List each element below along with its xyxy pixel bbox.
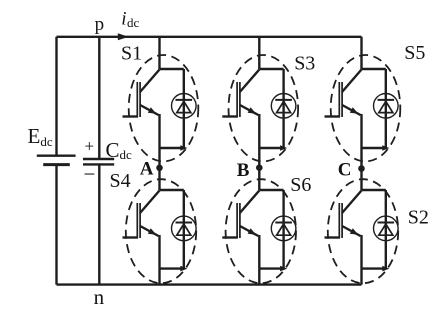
label E_dc bbox=[28, 124, 53, 149]
wire: phase leg A stem to negative rail bbox=[158, 269, 160, 285]
wire: S4 freewheel diode branch vertical bbox=[183, 190, 185, 269]
wire: DC source branch vertical bbox=[55, 37, 57, 285]
svg-text:C: C bbox=[338, 160, 352, 181]
svg-text:p: p bbox=[95, 14, 105, 35]
wire: S3 emitter-to-diode bottom horizontal with arrowhead bbox=[259, 145, 287, 151]
transistor S1 (IGBT symbol) bbox=[123, 70, 160, 118]
label - (capacitor polarity) bbox=[84, 162, 96, 186]
svg-text:S4: S4 bbox=[110, 170, 131, 192]
label node B (phase output) bbox=[237, 160, 250, 181]
diode D1 (freewheeling, in circle) bbox=[172, 94, 197, 119]
wire: S6 emitter vertical bbox=[258, 235, 260, 269]
label S5 (switch designator) bbox=[404, 42, 425, 64]
wire: S5 emitter vertical bbox=[360, 114, 362, 148]
wire: S4 emitter vertical bbox=[158, 235, 160, 269]
wire: S4 collector top horizontal bbox=[160, 189, 184, 191]
arrow: i_dc current direction on positive rail bbox=[118, 33, 129, 40]
wire: S2 freewheel diode branch vertical bbox=[385, 190, 387, 269]
wire: phase leg A stem from positive rail bbox=[158, 37, 160, 69]
svg-text:i: i bbox=[121, 8, 126, 29]
node C (junction dot) bbox=[358, 165, 365, 172]
wire: S6 freewheel diode branch vertical bbox=[282, 190, 284, 269]
wire: positive DC rail (p) bbox=[57, 36, 362, 38]
wire: S3 emitter vertical bbox=[258, 114, 260, 148]
module outline: dashed ellipse around S4 bbox=[126, 179, 196, 283]
diode D3 (freewheeling, in circle) bbox=[271, 94, 296, 119]
node A (junction dot) bbox=[156, 165, 163, 172]
wire: S2 emitter vertical bbox=[360, 235, 362, 269]
diode D5 (freewheeling, in circle) bbox=[374, 94, 399, 119]
svg-text:S2: S2 bbox=[408, 207, 429, 229]
module outline: dashed ellipse around S5 bbox=[331, 55, 401, 161]
transistor S6 (IGBT symbol) bbox=[222, 191, 259, 239]
capacitor C_dc (plates) bbox=[83, 159, 114, 164]
transistor S5 (IGBT symbol) bbox=[325, 70, 362, 118]
module outline: dashed ellipse around S2 bbox=[328, 179, 398, 283]
node p (positive terminal label) bbox=[95, 14, 105, 35]
wire: phase leg B stem from positive rail bbox=[258, 37, 260, 69]
svg-text:dc: dc bbox=[127, 15, 140, 30]
svg-text:A: A bbox=[140, 159, 154, 180]
battery E_dc (DC source symbol) bbox=[37, 156, 76, 165]
module outline: dashed ellipse around S3 bbox=[228, 55, 298, 161]
diode D2 (freewheeling, in circle) bbox=[374, 216, 399, 241]
wire: midpoint stem through node B bbox=[258, 148, 260, 190]
wire: phase leg C stem from positive rail bbox=[360, 37, 362, 69]
wire: S2 emitter-to-diode bottom horizontal with arrowhead bbox=[362, 266, 390, 272]
transistor S4 (IGBT symbol) bbox=[123, 191, 160, 239]
module outline: dashed ellipse around S6 bbox=[226, 179, 296, 283]
wire: S1 emitter-to-diode bottom horizontal with arrowhead bbox=[160, 145, 188, 151]
label node C (phase output) bbox=[338, 160, 352, 181]
svg-text:−: − bbox=[84, 162, 96, 186]
svg-text:S3: S3 bbox=[294, 52, 315, 74]
diode D6 (freewheeling, in circle) bbox=[271, 216, 296, 241]
wire: S6 collector top horizontal bbox=[259, 189, 283, 191]
wire: S5 emitter-to-diode bottom horizontal with arrowhead bbox=[362, 145, 390, 151]
wire: midpoint stem through node C bbox=[360, 148, 362, 190]
svg-text:S1: S1 bbox=[121, 42, 142, 64]
wire: negative DC rail (n) bbox=[57, 283, 362, 285]
svg-text:B: B bbox=[237, 160, 250, 181]
wire: midpoint stem through node A bbox=[158, 148, 160, 190]
node B (junction dot) bbox=[256, 164, 263, 171]
node n (negative terminal label) bbox=[94, 285, 105, 309]
diode D4 (freewheeling, in circle) bbox=[172, 216, 197, 241]
module outline: dashed ellipse around S1 bbox=[129, 55, 199, 161]
svg-text:n: n bbox=[94, 285, 105, 309]
current label i_dc bbox=[121, 8, 139, 30]
label S2 (switch designator) bbox=[408, 207, 429, 229]
label S1 (switch designator) bbox=[121, 42, 142, 64]
wire: phase leg C stem to negative rail bbox=[360, 269, 362, 285]
wire: S3 collector top horizontal bbox=[259, 68, 283, 70]
wire: S3 freewheel diode branch vertical bbox=[282, 69, 284, 148]
svg-text:+: + bbox=[85, 137, 95, 156]
wire: S1 collector top horizontal bbox=[160, 68, 184, 70]
label S6 (switch designator) bbox=[290, 174, 311, 196]
wire: S1 emitter vertical bbox=[158, 114, 160, 148]
svg-text:S5: S5 bbox=[404, 42, 425, 64]
wire: S1 freewheel diode branch vertical bbox=[183, 69, 185, 148]
wire: DC-link capacitor branch vertical bbox=[98, 37, 100, 285]
label S3 (switch designator) bbox=[294, 52, 315, 74]
label S4 (switch designator) bbox=[110, 170, 131, 192]
label + (capacitor polarity) bbox=[85, 137, 95, 156]
transistor S2 (IGBT symbol) bbox=[325, 191, 362, 239]
wire: S4 emitter-to-diode bottom horizontal with arrowhead bbox=[160, 266, 188, 272]
label node A (phase output) bbox=[140, 159, 154, 180]
wire: S5 freewheel diode branch vertical bbox=[385, 69, 387, 148]
wire: S2 collector top horizontal bbox=[362, 189, 386, 191]
svg-text:S6: S6 bbox=[290, 174, 311, 196]
wire: S5 collector top horizontal bbox=[362, 68, 386, 70]
transistor S3 (IGBT symbol) bbox=[222, 70, 259, 118]
label C_dc bbox=[106, 138, 133, 162]
wire: S6 emitter-to-diode bottom horizontal with arrowhead bbox=[259, 266, 287, 272]
wire: phase leg B stem to negative rail bbox=[258, 269, 260, 285]
